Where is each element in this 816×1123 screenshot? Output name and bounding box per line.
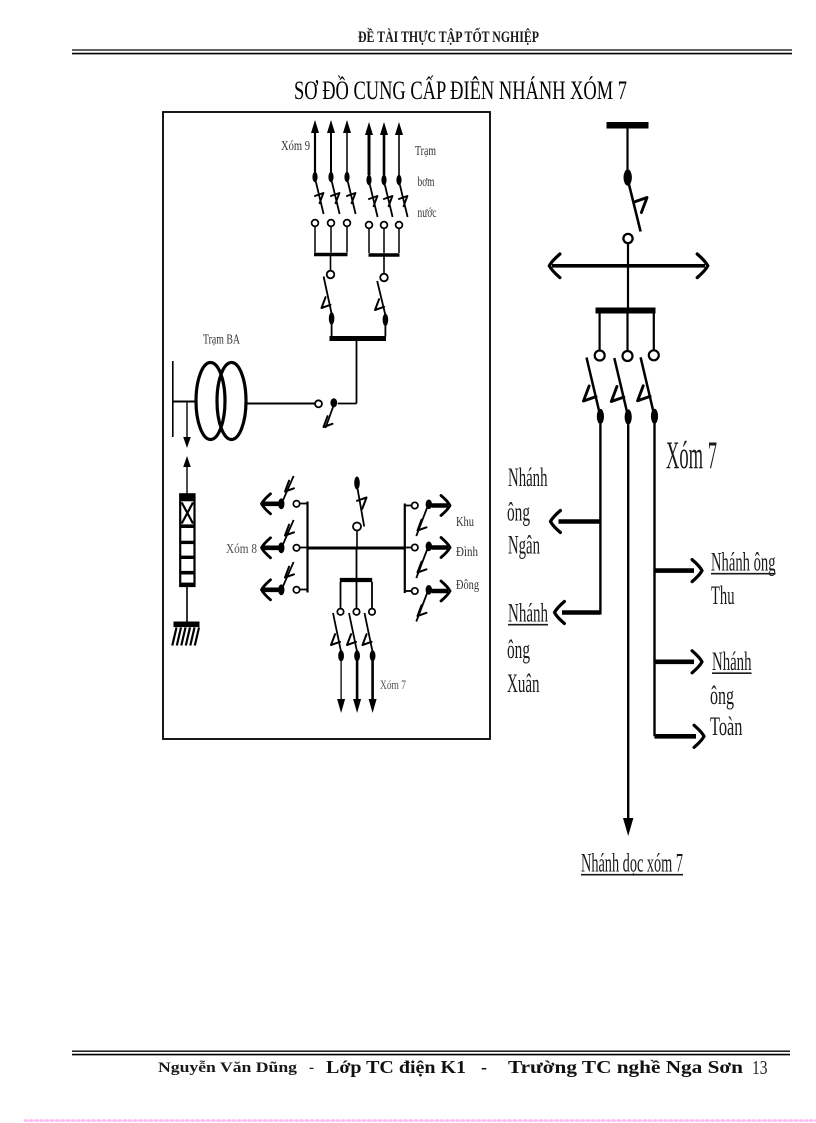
header text DE TAI THUC TAP TOT NGHIEP	[358, 27, 539, 46]
wire branch Ngan-Xuan	[599, 424, 601, 615]
wire arrester tap	[183, 402, 191, 449]
label Nhanh ong Ngan	[507, 463, 548, 560]
feeder arrow Nhanh ong Thu	[655, 560, 703, 582]
surge arrester FV1	[180, 494, 194, 586]
disconnect switch DS21 Xom7 feeder 1	[584, 351, 605, 425]
feeder arrow trunk bidirectional	[549, 254, 708, 278]
wire arrester link	[183, 456, 191, 494]
svg-text:ĐỀ TÀI THỰC TẬP TỐT NGHIỆP: ĐỀ TÀI THỰC TẬP TỐT NGHIỆP	[358, 27, 539, 46]
label Xom 7	[666, 432, 717, 477]
feeder arrow Xom7 box line 2	[353, 661, 361, 713]
feeder arrow Xom9 line 1	[311, 120, 319, 172]
svg-text:Xóm 8: Xóm 8	[226, 541, 257, 556]
svg-text:Nhánh dọc xóm 7: Nhánh dọc xóm 7	[581, 848, 683, 877]
disconnect switch DS4 Tram bom	[366, 175, 378, 253]
svg-text:Xóm 7: Xóm 7	[380, 677, 406, 692]
bus bracket Xom7 box	[340, 550, 372, 609]
svg-text:-: -	[481, 1057, 487, 1077]
feeder arrow Xom7 box line 1	[337, 661, 345, 713]
label Xom 9	[281, 138, 310, 153]
title SO DO CUNG CAP DIEN NHANH XOM 7	[294, 76, 627, 105]
feeder arrow Tram bom line 1	[365, 122, 373, 175]
label Xom 7 box	[380, 677, 406, 692]
disconnect switch DS16 Khu branch 3	[405, 581, 450, 622]
svg-text:ông: ông	[710, 681, 734, 710]
svg-text:13: 13	[752, 1058, 768, 1079]
bus bracket Xom7 main	[596, 311, 656, 351]
label Xom 8	[226, 541, 257, 556]
svg-text:Nhánh: Nhánh	[508, 598, 548, 627]
wire arrester to ground	[186, 586, 188, 622]
node primary stub	[172, 361, 174, 437]
disconnect switch DS10	[353, 477, 367, 547]
disconnect switch DS14 Khu branch 1	[405, 496, 450, 537]
disconnect switch DS23 Xom7 feeder 3	[638, 350, 659, 424]
feeder arrow Nhanh ong Toan	[655, 651, 703, 673]
svg-text:Đông: Đông	[456, 577, 479, 592]
bus bracket Tram bom	[369, 255, 400, 273]
disconnect switch DS17 Xom7 branch 1	[331, 609, 344, 662]
disconnect switch DS2 Xom9	[328, 172, 340, 253]
feeder arrow bottom Toan	[655, 725, 705, 747]
transformer T1	[196, 363, 246, 440]
disconnect switch DS9	[315, 398, 357, 428]
bus bracket Xom9	[314, 255, 348, 271]
header double rule	[72, 50, 792, 54]
svg-text:Nguyễn Văn Dũng: Nguyễn Văn Dũng	[158, 1060, 298, 1076]
wire distribution feeder	[308, 547, 405, 550]
svg-text:Lớp TC điện K1: Lớp TC điện K1	[326, 1057, 466, 1077]
disconnect switch DS22 Xom7 feeder 2	[611, 351, 632, 425]
label Nhanh doc xom 7	[581, 848, 683, 877]
busbar Xom8	[306, 502, 308, 593]
svg-text:SƠ ĐỒ CUNG CẤP ĐIÊN NHÁNH XÓM: SƠ ĐỒ CUNG CẤP ĐIÊN NHÁNH XÓM 7	[294, 76, 627, 105]
wire branch Thu-Toan	[653, 423, 655, 736]
svg-text:nước: nước	[418, 205, 437, 220]
svg-text:Xuân: Xuân	[507, 669, 540, 698]
svg-text:Xóm 7: Xóm 7	[666, 432, 717, 477]
svg-text:ông: ông	[507, 635, 530, 664]
disconnect switch DS8	[375, 274, 388, 337]
disconnect switch DS18 Xom7 branch 2	[347, 609, 360, 662]
enclosure box	[163, 112, 490, 739]
incoming busbar	[607, 122, 649, 129]
svg-text:Đình: Đình	[456, 544, 478, 559]
svg-text:Trạm BA: Trạm BA	[203, 332, 240, 347]
svg-text:Toàn: Toàn	[710, 712, 743, 741]
label Nhanh ong Xuan	[507, 598, 548, 698]
svg-text:Thu: Thu	[711, 581, 735, 610]
feeder arrow Nhanh doc xom 7 head	[623, 818, 633, 836]
label Nhanh ong Toan	[710, 647, 752, 741]
wire main bus upper	[356, 341, 358, 404]
bottom dotted pink rule	[25, 1119, 816, 1122]
feeder arrow Nhanh ong Xuan	[555, 602, 601, 624]
svg-text:Trường TC nghề Nga Sơn: Trường TC nghề Nga Sơn	[508, 1057, 743, 1077]
label Tram bom nuoc	[415, 143, 437, 220]
ground	[172, 624, 199, 645]
footer double rule	[72, 1051, 790, 1054]
disconnect switch DS6 Tram bom	[396, 175, 408, 253]
wire primary	[173, 401, 197, 403]
svg-text:bơm: bơm	[418, 174, 435, 189]
busbar Khu Dinh Dong	[404, 504, 406, 594]
feeder arrow Tram bom line 2	[380, 122, 388, 175]
disconnect switch DS1 Xom9	[312, 172, 324, 253]
feeder arrow Tram bom line 3	[395, 122, 403, 175]
svg-text:Trạm: Trạm	[415, 143, 436, 158]
svg-text:Nhánh: Nhánh	[508, 463, 548, 492]
disconnect switch DS11 Xom8 branch 1	[262, 476, 308, 514]
feeder arrow Nhanh ong Ngan	[551, 511, 601, 533]
footer text	[158, 1057, 768, 1079]
wire transformer secondary	[246, 403, 316, 405]
busbar main	[330, 336, 387, 341]
svg-text:Nhánh: Nhánh	[712, 647, 752, 676]
label Khu Dinh Dong	[456, 514, 479, 592]
feeder arrow Xom7 box line 3	[369, 661, 377, 713]
disconnect switch DS19 Xom7 branch 3	[363, 609, 376, 662]
label Nhanh ong Thu	[711, 547, 776, 610]
wire incoming drop	[626, 129, 628, 171]
disconnect switch DS12 Xom8 branch 2	[262, 520, 308, 558]
disconnect switch DS3 Xom9	[344, 172, 356, 253]
svg-text:Khu: Khu	[456, 514, 474, 529]
svg-text:ông: ông	[507, 497, 530, 526]
svg-text:Ngân: Ngân	[508, 530, 540, 559]
svg-text:Xóm 9: Xóm 9	[281, 138, 310, 153]
feeder arrow Xom9 line 3	[343, 120, 351, 172]
svg-text:-: -	[309, 1060, 314, 1076]
disconnect switch DS7	[322, 271, 335, 337]
feeder arrow Xom9 line 2	[327, 120, 335, 172]
disconnect switch DS5 Tram bom	[381, 175, 393, 253]
wire trunk Xom7	[627, 425, 629, 819]
disconnect switch DS15 Khu branch 2	[405, 538, 450, 579]
disconnect switch DS13 Xom8 branch 3	[262, 562, 308, 600]
label Tram BA	[203, 332, 240, 347]
svg-text:Nhánh ông: Nhánh ông	[711, 547, 776, 576]
disconnect switch DS20 main	[623, 169, 647, 307]
